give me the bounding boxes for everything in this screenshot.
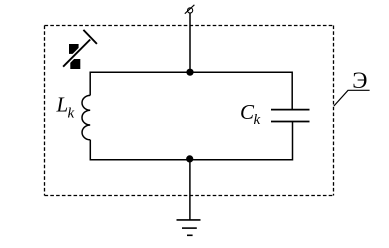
capacitor Ck bottom plate: [271, 121, 310, 123]
wire: right branch bottom segment: [292, 122, 294, 161]
svg-text:Э: Э: [352, 68, 367, 93]
leader line for node label Э: [334, 90, 370, 106]
node: bottom junction dot: [186, 155, 193, 162]
core square (lower) of tunable inductor: [70, 59, 80, 69]
capacitor Ck top plate: [271, 109, 310, 111]
node: top junction dot: [186, 69, 193, 76]
svg-text:k: k: [254, 112, 261, 128]
wire: right branch top segment: [291, 72, 293, 110]
terminal (circle with slash): [188, 8, 193, 13]
wire: top rail: [90, 71, 292, 73]
wire: left branch bottom segment: [89, 140, 91, 161]
adjustment stroke (white cased diagonal): [63, 40, 90, 67]
wire: ground lead: [189, 160, 191, 220]
adjustment T-bar: [83, 30, 97, 44]
wire: terminal lead down to top node: [189, 13, 191, 72]
ground symbol: [177, 219, 201, 221]
wire: left branch top segment: [89, 72, 91, 96]
core square (upper) of tunable inductor: [69, 44, 79, 54]
wire: bottom rail: [90, 159, 292, 161]
inductor Lk (3 semicircular turns): [82, 95, 90, 139]
screen enclosure (dashed box): [45, 25, 335, 27]
svg-text:k: k: [68, 106, 75, 122]
svg-text:L: L: [56, 93, 69, 117]
